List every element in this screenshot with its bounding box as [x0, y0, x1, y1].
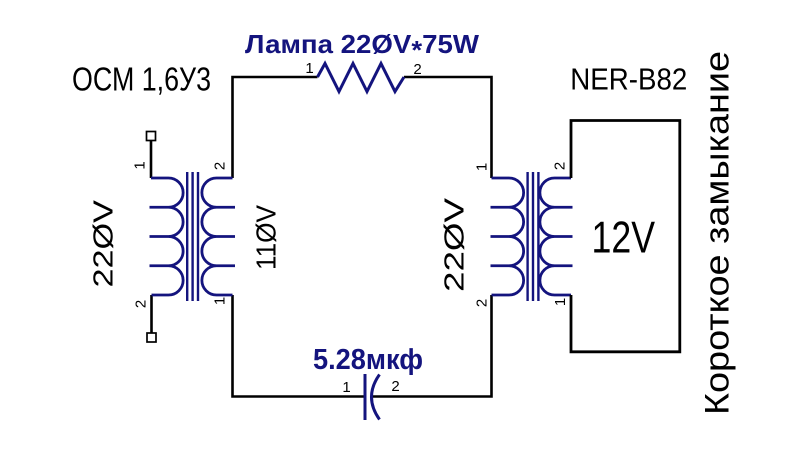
capacitor C1 plate 2 (curved) [372, 375, 380, 420]
T1 primary winding ticks [150, 207, 169, 266]
svg-text:1: 1 [132, 161, 149, 169]
svg-text:NER-B82: NER-B82 [570, 62, 687, 97]
T1 pin wire primary top [150, 141, 153, 179]
svg-text:1: 1 [305, 60, 313, 77]
T1 core [187, 172, 198, 301]
svg-text:11ØV: 11ØV [251, 205, 282, 270]
svg-text:2: 2 [212, 162, 229, 170]
svg-text:1: 1 [212, 297, 229, 305]
svg-text:1: 1 [474, 163, 491, 171]
svg-text:ОСМ 1,6У3: ОСМ 1,6У3 [72, 61, 211, 98]
svg-text:2: 2 [133, 300, 150, 308]
T2 secondary winding 12V [540, 178, 571, 295]
T1 secondary winding 110V [202, 178, 233, 295]
svg-text:2: 2 [391, 378, 399, 395]
svg-text:1: 1 [552, 298, 569, 306]
wire: bottom right from capacitor pin2 to T2 bottom [372, 295, 492, 397]
T1 primary winding 220V [151, 178, 183, 295]
T2 primary winding 220V [492, 178, 524, 295]
wire: top left horizontal+riser from T1 pin2 to lamp pin1 [233, 77, 318, 178]
svg-text:22ØV: 22ØV [439, 198, 470, 292]
T1 pin wire primary bottom [150, 295, 153, 333]
T2 secondary winding ticks [555, 207, 573, 266]
svg-text:2: 2 [474, 299, 491, 307]
svg-text:12V: 12V [592, 214, 656, 263]
wire: short circuit loop on T2 secondary [571, 121, 680, 352]
svg-text:2: 2 [413, 61, 421, 78]
lamp EL1 zigzag element [318, 64, 405, 92]
T2 core [528, 172, 539, 301]
svg-text:2: 2 [552, 162, 569, 170]
capacitor C1 plate 1 (straight) [364, 374, 367, 420]
svg-text:1: 1 [342, 379, 350, 396]
svg-text:Короткое замыкание: Короткое замыкание [699, 51, 737, 415]
wire: top right from lamp pin2 to T2 riser [404, 77, 492, 178]
svg-text:5.28мкф: 5.28мкф [313, 344, 423, 376]
T2 primary winding ticks [491, 207, 510, 266]
T1 terminal square pin 1 [147, 132, 156, 141]
T1 terminal square pin 2 [147, 333, 156, 342]
wire: bottom left riser from T1 pin1 to capacitor pin1 [233, 295, 365, 397]
svg-text:22ØV: 22ØV [88, 200, 119, 288]
T1 secondary winding ticks [217, 207, 236, 266]
